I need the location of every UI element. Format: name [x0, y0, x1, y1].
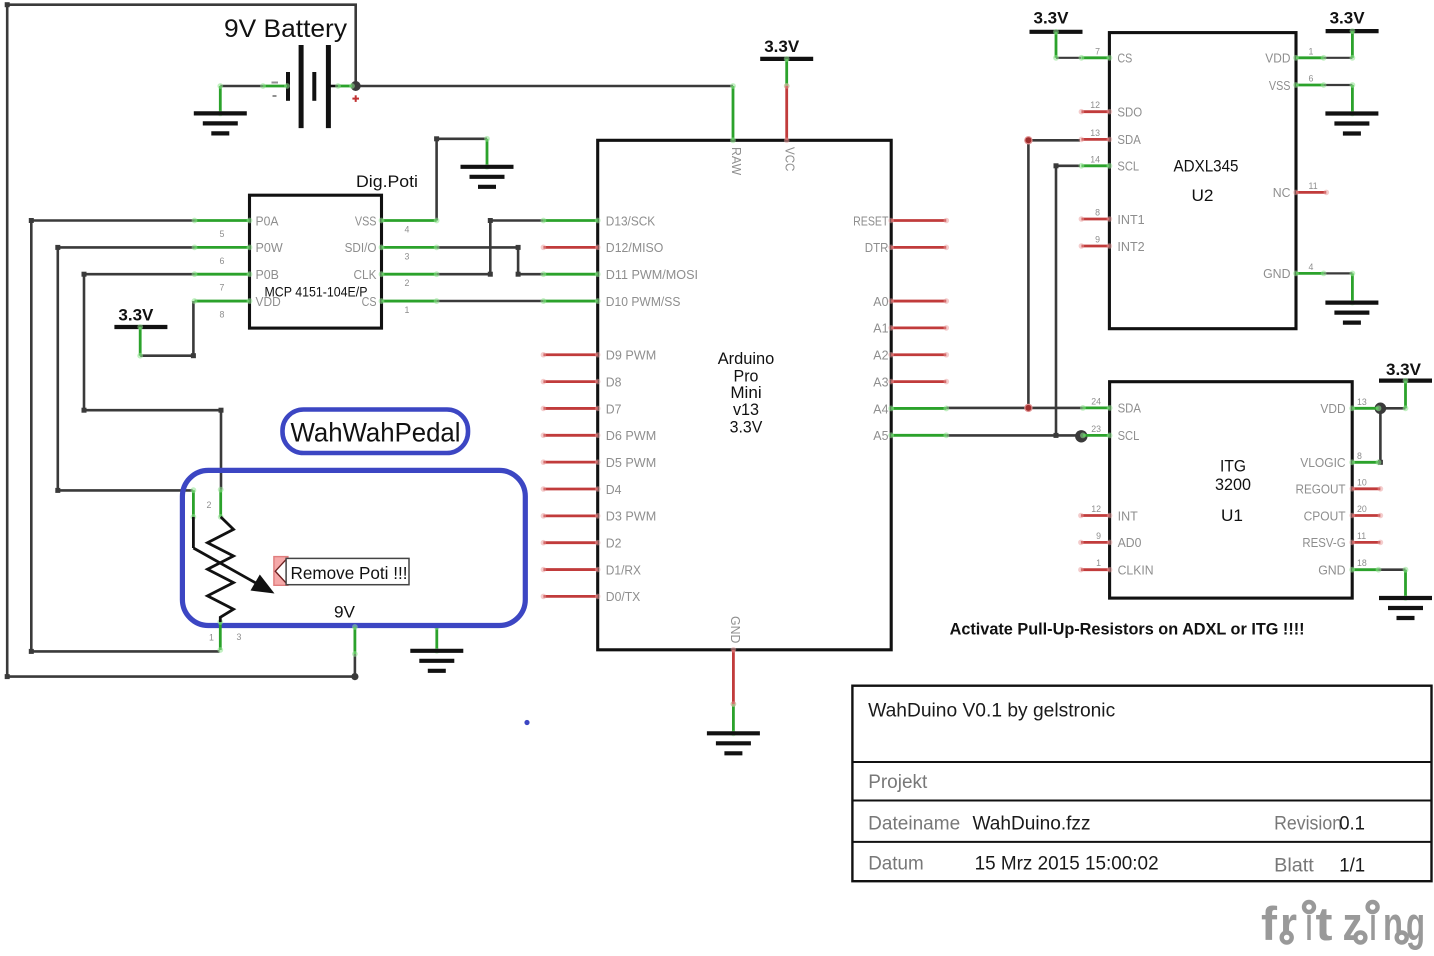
svg-text:A3: A3 [873, 374, 888, 389]
Arduino pin D2 [541, 536, 622, 551]
Arduino pin D5 PWM [541, 455, 657, 470]
svg-text:U1: U1 [1221, 506, 1243, 525]
svg-text:RAW: RAW [729, 147, 744, 176]
wire ITG VDD to 3.3V and VLOGIC [1378, 408, 1406, 465]
power symbol 3.3V at MCP VDD [114, 306, 167, 359]
Arduino pin A5 [873, 428, 949, 443]
ITG pin SDA number 24 [1080, 396, 1141, 415]
fritzing logo wordmark [1261, 897, 1425, 950]
svg-text:VDD: VDD [1320, 401, 1345, 416]
ground symbol at battery minus [194, 83, 247, 133]
title block text WahDuino V0.1 by gelstronic [868, 700, 1115, 721]
svg-text:A0: A0 [873, 294, 888, 309]
svg-text:14: 14 [1090, 154, 1100, 164]
Arduino pin D11 PWM/MOSI [541, 267, 699, 282]
wire MCP VSS to ground [434, 136, 487, 220]
wire MCP P0W to potentiometer wiper pin 2 [55, 245, 194, 493]
svg-text:4: 4 [405, 225, 410, 235]
svg-text:3200: 3200 [1215, 475, 1251, 494]
potentiometer bottom pin 1 stub [217, 619, 223, 653]
svg-text:GND: GND [1318, 563, 1345, 578]
Arduino pin VCC [783, 83, 798, 171]
svg-text:11: 11 [1309, 181, 1318, 191]
Arduino pin D12/MISO [541, 240, 664, 255]
svg-text:WahWahPedal: WahWahPedal [291, 418, 461, 448]
Arduino pin A2 [873, 348, 949, 363]
svg-text:A5: A5 [873, 428, 888, 443]
svg-text:GND: GND [1263, 266, 1290, 281]
Arduino pin A3 [873, 374, 949, 389]
svg-text:8: 8 [1095, 208, 1100, 218]
svg-text:10: 10 [1357, 477, 1367, 487]
svg-text:GND: GND [728, 616, 743, 643]
title block field Projekt [868, 772, 928, 793]
MCP pin P0W number 6 [192, 240, 284, 266]
svg-text:P0W: P0W [256, 240, 284, 255]
IC ITG 3200 gyroscope U1 body [1110, 382, 1353, 598]
battery positive lead pin [335, 83, 355, 89]
Arduino pin D13/SCK [541, 213, 656, 228]
power symbol 3.3V at Arduino VCC [760, 37, 813, 89]
ground symbol at ADXL GND [1325, 271, 1378, 323]
note Activate Pull-Up-Resistors [950, 620, 1305, 639]
Arduino pin D6 PWM [541, 428, 657, 443]
ITG pin RESV-G number 11 [1302, 531, 1383, 550]
svg-text:9V Battery: 9V Battery [224, 15, 348, 43]
label frame WahWahPedal [283, 410, 469, 454]
svg-text:13: 13 [1090, 128, 1100, 138]
svg-text:7: 7 [1095, 46, 1100, 56]
potentiometer pin number 1 [209, 633, 214, 643]
svg-text:DTR: DTR [865, 240, 889, 255]
IC MCP 4151-104E/P digital potentiometer body [250, 195, 382, 328]
svg-text:SDA: SDA [1118, 401, 1142, 416]
title block field Blatt [1274, 856, 1314, 877]
svg-text:t: t [1316, 897, 1333, 950]
pedal 9V net stub [352, 624, 358, 657]
svg-text:3.3V: 3.3V [1386, 360, 1422, 379]
svg-text:9V: 9V [334, 603, 356, 622]
Arduino pin D3 PWM [541, 509, 657, 524]
frame wah pedal subcircuit box [182, 470, 525, 625]
svg-text:D4: D4 [606, 482, 622, 497]
svg-text:SCL: SCL [1117, 159, 1139, 174]
ADXL pin GND number 4 [1263, 262, 1326, 281]
svg-text:RESV-G: RESV-G [1302, 535, 1345, 550]
wire Arduino A5 to ITG SCL node [946, 434, 1082, 437]
svg-text:RESET: RESET [853, 213, 888, 228]
svg-text:INT1: INT1 [1117, 212, 1144, 227]
svg-text:A1: A1 [873, 321, 888, 336]
svg-text:Dig.Poti: Dig.Poti [356, 172, 418, 191]
Arduino pin D9 PWM [541, 348, 657, 363]
svg-text:20: 20 [1357, 504, 1367, 514]
power symbol 3.3V at ITG VDD [1379, 360, 1432, 411]
svg-text:SCL: SCL [1118, 428, 1140, 443]
Arduino pin D1/RX [541, 562, 642, 577]
title block value 0.1 [1339, 814, 1365, 835]
stray blue dot mark [524, 720, 529, 725]
svg-text:CLK: CLK [354, 267, 377, 282]
svg-text:Activate Pull-Up-Resistors on: Activate Pull-Up-Resistors on ADXL or IT… [950, 620, 1305, 639]
svg-text:Arduino: Arduino [718, 350, 775, 368]
wire Arduino A4 to ITG SDA [946, 407, 1083, 410]
battery 9V cell symbol [288, 45, 341, 128]
svg-text:NC: NC [1273, 185, 1291, 200]
svg-text:D6 PWM: D6 PWM [606, 428, 656, 443]
wire ADXL VDD to 3.3V symbol [1324, 57, 1353, 59]
svg-text:D3 PWM: D3 PWM [606, 509, 656, 524]
wire MCP P0A to potentiometer pin 1 [29, 218, 220, 654]
Arduino pin D8 [541, 374, 622, 389]
Arduino pin RESET [853, 213, 949, 228]
svg-text:24: 24 [1091, 396, 1101, 406]
ground symbol at ADXL VSS [1325, 82, 1378, 133]
wire ADXL SCL down to A5 net [1054, 163, 1081, 438]
svg-text:18: 18 [1357, 558, 1367, 568]
svg-text:4: 4 [1309, 262, 1314, 272]
ADXL pin CS number 7 [1079, 46, 1133, 65]
battery minus polarity mark [272, 83, 279, 97]
ITG pin AD0 number 9 [1078, 531, 1141, 550]
svg-text:1: 1 [1309, 46, 1314, 56]
wire ADXL GND to ground [1324, 272, 1353, 274]
note Remove Poti !!! [286, 558, 409, 584]
wire net 9V: battery plus junction to Arduino RAW pin [356, 85, 733, 88]
ITG pin INT number 12 [1078, 504, 1138, 523]
svg-text:1/1: 1/1 [1339, 856, 1365, 877]
title block value 1/1 [1339, 856, 1365, 877]
battery plus polarity mark [352, 95, 359, 102]
svg-text:1: 1 [405, 305, 410, 315]
label 9V Battery [224, 15, 348, 43]
MCP pin P0A number 5 [192, 213, 279, 239]
Arduino pin D10 PWM/SS [541, 294, 681, 309]
wire MCP CS to Arduino D10 PWM/SS [437, 300, 544, 303]
svg-text:D12/MISO: D12/MISO [606, 240, 664, 255]
svg-text:3: 3 [405, 251, 410, 261]
ADXL pin VDD number 1 [1265, 46, 1326, 65]
svg-text:VSS: VSS [1269, 78, 1291, 93]
svg-text:2: 2 [405, 278, 410, 288]
ITG pin CPOUT number 20 [1304, 504, 1384, 523]
svg-text:D8: D8 [606, 374, 622, 389]
svg-text:D11 PWM/MOSI: D11 PWM/MOSI [606, 267, 698, 282]
svg-text:3: 3 [237, 632, 242, 642]
svg-text:3.3V: 3.3V [1330, 9, 1366, 28]
svg-text:12: 12 [1090, 100, 1100, 110]
svg-text:3.3V: 3.3V [118, 306, 154, 325]
wire MCP VDD to 3.3V symbol [140, 301, 196, 358]
svg-text:Mini: Mini [730, 384, 761, 402]
ADXL pin SCL number 14 [1079, 154, 1140, 173]
MCP pin P0B number 7 [192, 267, 279, 293]
Arduino pin A0 [873, 294, 949, 309]
junction dot battery plus node [351, 81, 361, 91]
Arduino pin D4 [541, 482, 622, 497]
wire ADXL SDA down to A4 net [1028, 140, 1080, 408]
label 9V net inside pedal [334, 603, 356, 622]
IC ADXL345 accelerometer U2 body [1109, 33, 1296, 329]
svg-text:D10 PWM/SS: D10 PWM/SS [606, 294, 681, 309]
MCP pin CS number 1 [362, 294, 440, 315]
Arduino pin D7 [541, 401, 622, 416]
junction dot red SDA upper [1024, 136, 1032, 144]
svg-text:3.3V: 3.3V [764, 37, 800, 56]
ground symbol at pedal box [410, 624, 463, 671]
Arduino pin D0/TX [541, 589, 641, 604]
junction dot SCL node [1075, 430, 1087, 442]
MCP pin VDD number 8 [192, 294, 281, 320]
MCP pin VSS number 4 [355, 213, 440, 234]
power symbol 3.3V at ADXL CS [1030, 9, 1083, 61]
svg-text:P0B: P0B [256, 267, 279, 282]
battery negative lead pin [260, 83, 290, 89]
title block value WahDuino.fzz [973, 814, 1091, 835]
wire ITG GND to ground [1379, 568, 1406, 571]
svg-text:0.1: 0.1 [1339, 814, 1365, 835]
svg-text:13: 13 [1357, 397, 1367, 407]
svg-text:ADXL345: ADXL345 [1174, 157, 1239, 176]
title block field Dateiname [868, 814, 960, 835]
wire net 9V: battery plus via top-left border loop to pedal 9V stub [5, 2, 359, 680]
svg-text:ITG: ITG [1220, 457, 1246, 476]
junction dot ITG VDD node [1375, 403, 1387, 415]
svg-text:6: 6 [220, 256, 225, 266]
ITG pin REGOUT number 10 [1296, 477, 1384, 496]
svg-text:12: 12 [1091, 504, 1101, 514]
ADXL pin INT2 number 9 [1079, 235, 1145, 254]
svg-text:SDO: SDO [1117, 105, 1142, 120]
svg-text:v13: v13 [733, 401, 759, 419]
junction dot red SDA lower on A4 wire [1024, 404, 1032, 412]
title block value 15 Mrz 2015 15:00:02 [975, 854, 1159, 875]
MCP pin SDI/O number 3 [345, 240, 440, 261]
potentiometer top pin stub [218, 487, 224, 520]
svg-text:5: 5 [220, 229, 225, 239]
svg-text:1: 1 [1096, 558, 1101, 568]
svg-text:A4: A4 [873, 401, 888, 416]
svg-text:f: f [1261, 897, 1277, 950]
svg-text:CS: CS [362, 294, 377, 309]
svg-text:g: g [1406, 897, 1425, 950]
svg-text:CS: CS [1117, 51, 1132, 66]
ground symbol at Arduino GND [707, 701, 760, 753]
potentiometer resistor zigzag [208, 517, 234, 622]
power symbol 3.3V at ADXL VDD [1326, 9, 1379, 61]
svg-text:D0/TX: D0/TX [606, 589, 641, 604]
ADXL pin NC number 11 [1273, 181, 1329, 200]
svg-text:REGOUT: REGOUT [1296, 482, 1346, 497]
svg-text:INT: INT [1118, 508, 1138, 523]
Arduino pin RAW [729, 83, 744, 176]
svg-text:U2: U2 [1192, 186, 1214, 205]
svg-text:11: 11 [1357, 531, 1366, 541]
MCP pin CLK number 2 [354, 267, 440, 288]
ADXL pin SDO number 12 [1079, 100, 1143, 119]
svg-text:9: 9 [1095, 235, 1100, 245]
ground symbol at MCP VSS [461, 136, 514, 187]
svg-text:Revision: Revision [1274, 814, 1342, 835]
svg-text:INT2: INT2 [1117, 239, 1144, 254]
title block field Datum [868, 854, 924, 875]
svg-text:D5 PWM: D5 PWM [606, 455, 656, 470]
ADXL pin SDA number 13 [1079, 128, 1141, 147]
wire MCP P0B to potentiometer pin 3 top [82, 272, 224, 490]
svg-text:15 Mrz 2015 15:00:02: 15 Mrz 2015 15:00:02 [975, 854, 1159, 875]
svg-text:6: 6 [1309, 74, 1314, 84]
svg-text:AD0: AD0 [1118, 535, 1142, 550]
svg-text:VLOGIC: VLOGIC [1300, 455, 1345, 470]
ITG pin GND number 18 [1318, 558, 1381, 577]
svg-text:D7: D7 [606, 401, 622, 416]
potentiometer pin number 2 [207, 500, 212, 510]
ITG pin VLOGIC number 8 [1300, 451, 1381, 470]
ADXL pin VSS number 6 [1269, 74, 1327, 93]
wire MCP CLK to Arduino D13/SCK [437, 218, 544, 277]
svg-text:P0A: P0A [256, 213, 279, 228]
svg-text:7: 7 [220, 283, 225, 293]
ITG pin VDD number 13 [1320, 397, 1381, 416]
svg-text:VDD: VDD [1265, 51, 1290, 66]
Arduino pin A4 [873, 401, 949, 416]
svg-text:1: 1 [209, 633, 214, 643]
label Dig.Poti [356, 172, 418, 191]
svg-text:Dateiname: Dateiname [868, 814, 960, 835]
title block field Revision [1274, 814, 1342, 835]
svg-text:A2: A2 [873, 348, 888, 363]
svg-text:8: 8 [1357, 451, 1362, 461]
ITG pin SCL number 23 [1080, 424, 1139, 443]
svg-text:D1/RX: D1/RX [606, 562, 641, 577]
potentiometer wiper pin 2 stub [191, 487, 197, 519]
ADXL pin INT1 number 8 [1079, 208, 1145, 227]
svg-text:SDA: SDA [1117, 132, 1141, 147]
svg-text:3.3V: 3.3V [1034, 9, 1070, 28]
wire ADXL VSS to ground [1324, 84, 1353, 86]
svg-text:WahDuino.fzz: WahDuino.fzz [973, 814, 1091, 835]
svg-text:8: 8 [220, 310, 225, 320]
title block frame [852, 686, 1431, 882]
svg-text:2: 2 [207, 500, 212, 510]
svg-text:VSS: VSS [355, 213, 377, 228]
ground symbol at ITG GND [1379, 567, 1432, 618]
Arduino pin DTR [865, 240, 949, 255]
svg-text:Projekt: Projekt [868, 772, 928, 793]
wire battery minus to ground [220, 85, 263, 88]
svg-text:VCC: VCC [783, 147, 798, 171]
svg-text:3.3V: 3.3V [730, 418, 763, 436]
svg-text:Blatt: Blatt [1274, 856, 1314, 877]
svg-text:D2: D2 [606, 536, 622, 551]
svg-text:WahDuino V0.1 by gelstronic: WahDuino V0.1 by gelstronic [868, 700, 1115, 721]
svg-text:CPOUT: CPOUT [1304, 508, 1346, 523]
svg-text:23: 23 [1091, 424, 1101, 434]
svg-text:D9 PWM: D9 PWM [606, 348, 656, 363]
svg-text:VDD: VDD [256, 294, 281, 309]
potentiometer pin number 3 [237, 632, 242, 642]
wire MCP SDI/O to Arduino D11 PWM/MOSI [437, 245, 544, 277]
Arduino pin GND bottom [728, 616, 743, 707]
potentiometer wiper arrow [193, 517, 274, 594]
note flag remove poti [274, 557, 288, 586]
svg-text:SDI/O: SDI/O [345, 240, 377, 255]
svg-text:Datum: Datum [868, 854, 924, 875]
svg-text:9: 9 [1096, 531, 1101, 541]
IC Arduino Pro Mini body [598, 140, 892, 650]
svg-text:Pro: Pro [734, 367, 759, 385]
ITG pin CLKIN number 1 [1078, 558, 1154, 577]
wire ADXL CS to 3.3V symbol [1056, 57, 1081, 59]
svg-text:CLKIN: CLKIN [1118, 563, 1154, 578]
svg-text:D13/SCK: D13/SCK [606, 213, 656, 228]
svg-text:Remove Poti !!!: Remove Poti !!! [291, 563, 408, 583]
Arduino pin A1 [873, 321, 949, 336]
